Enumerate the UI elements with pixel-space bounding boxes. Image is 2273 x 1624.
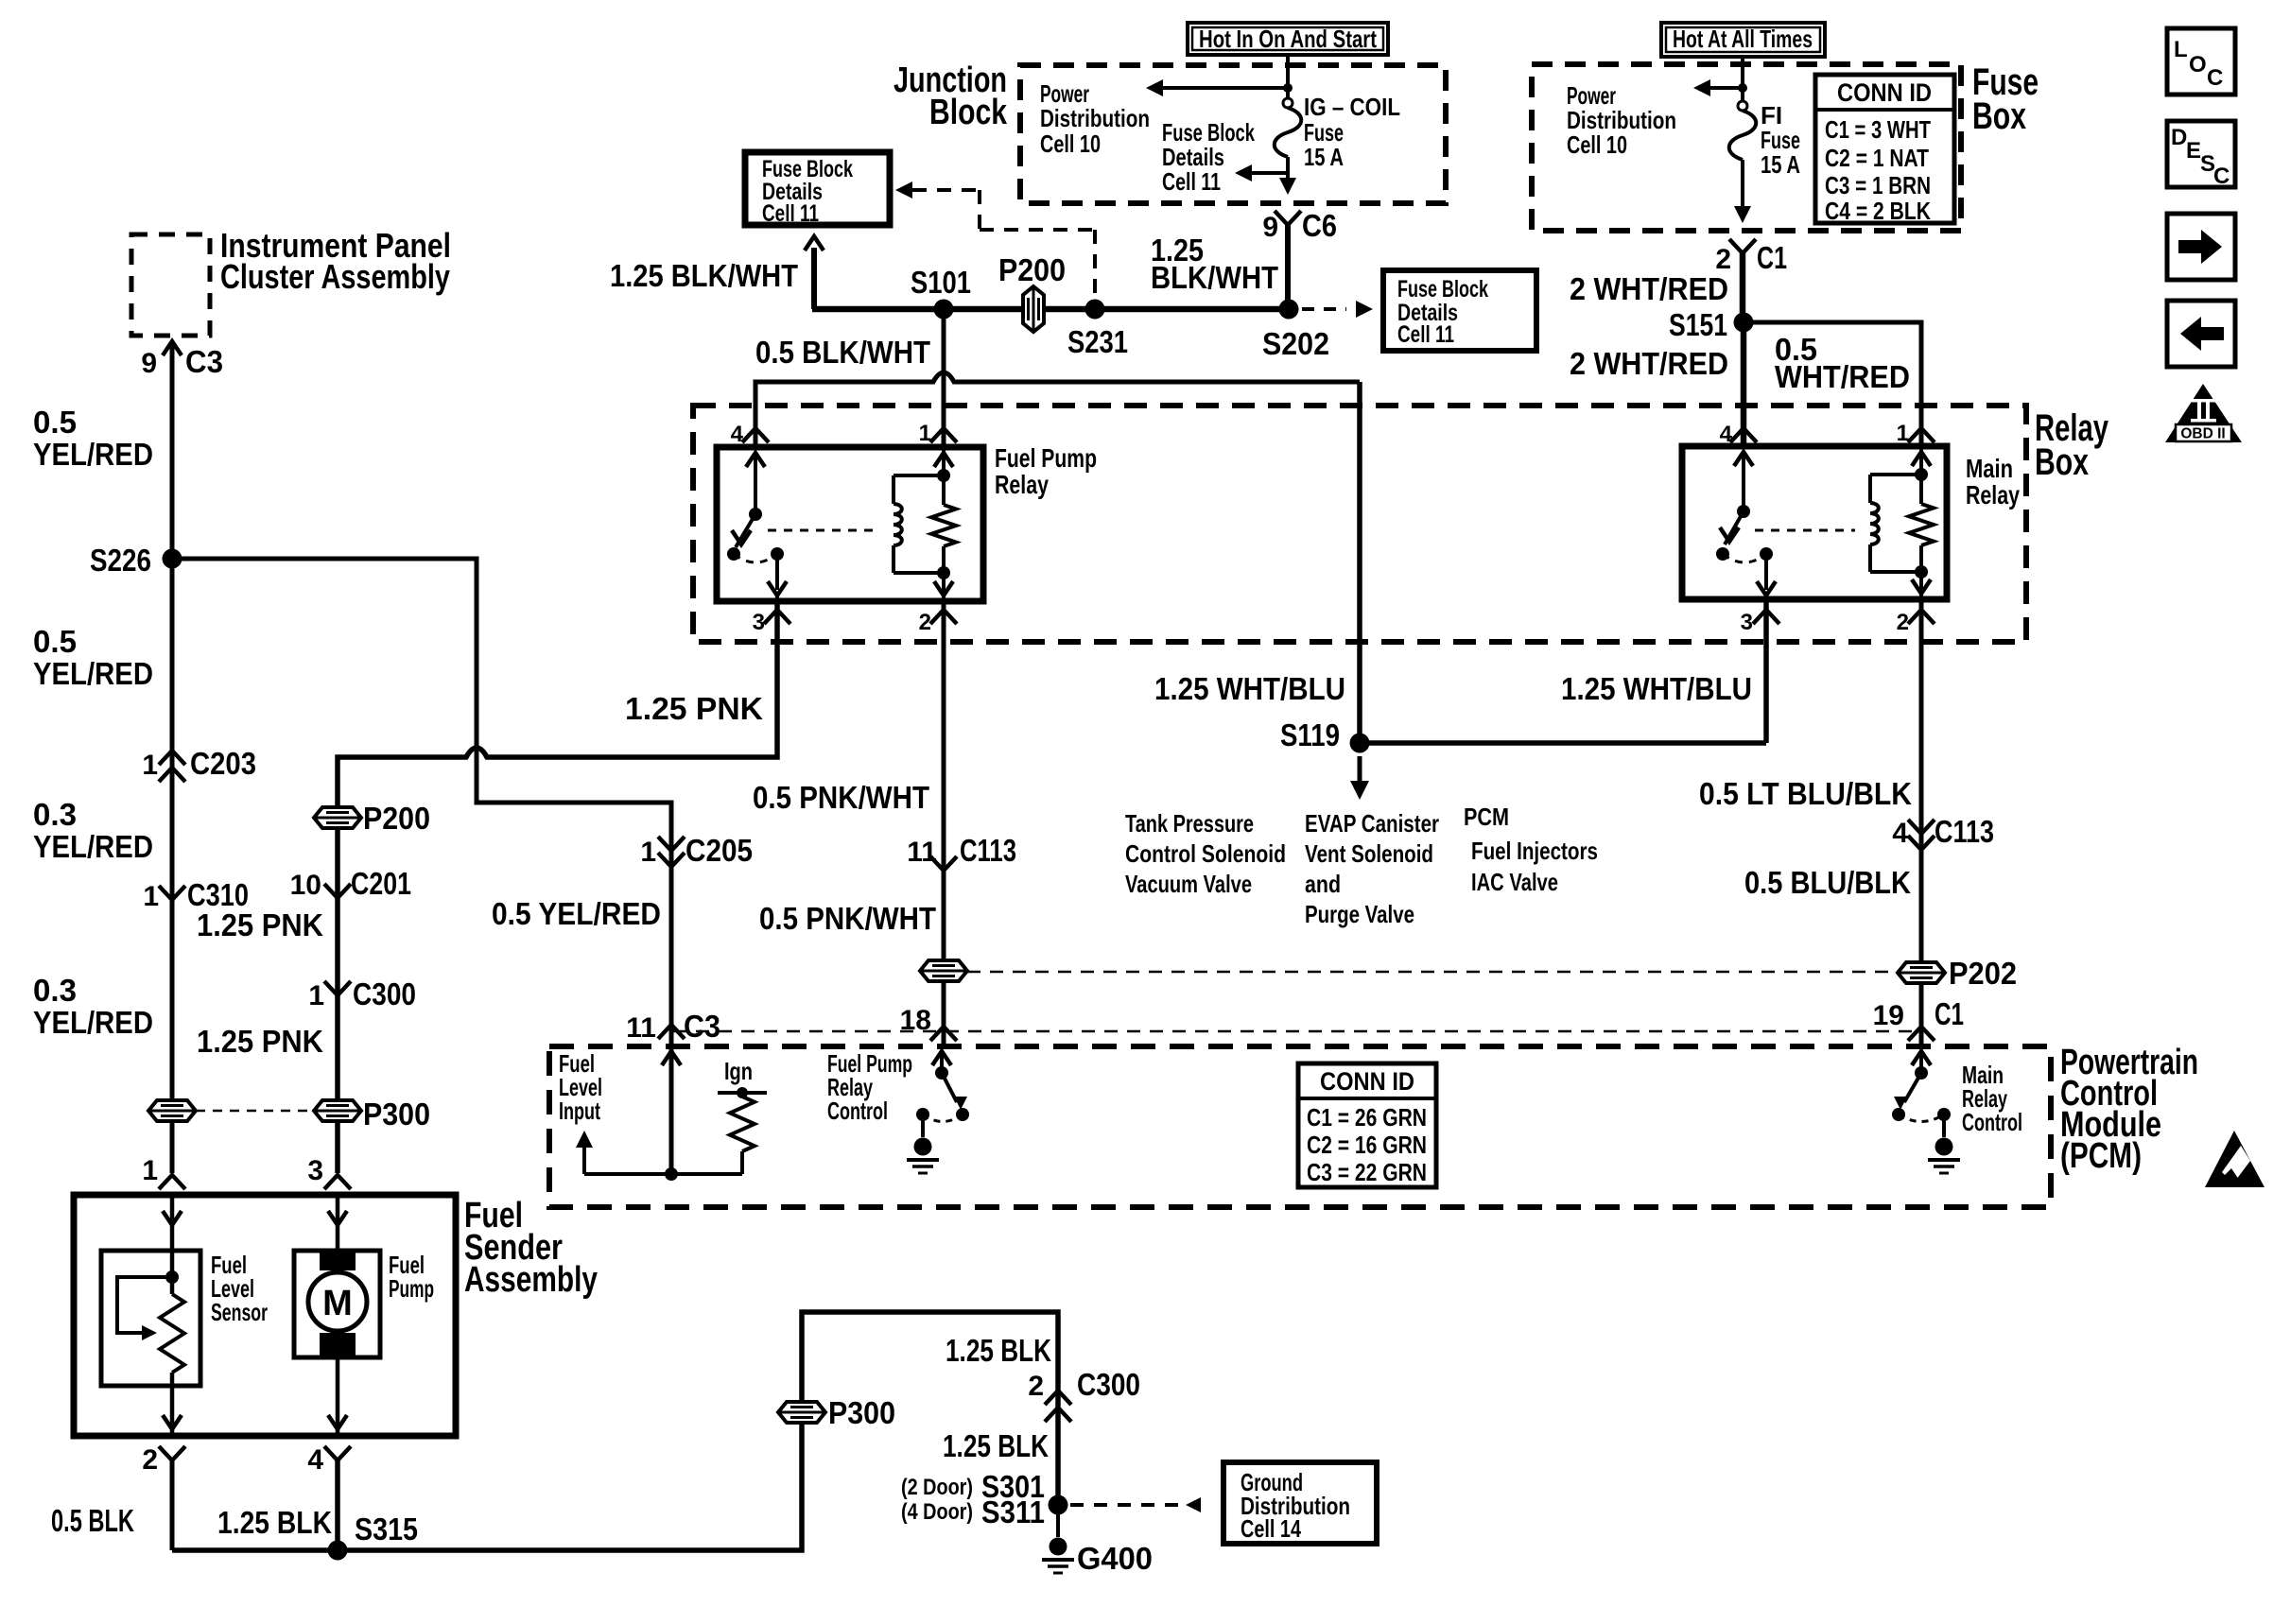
- svg-text:18: 18: [900, 1005, 931, 1036]
- main relay box: [1682, 446, 1947, 599]
- wire sensor to pin 2: [170, 1373, 175, 1436]
- wire from Hot In On And Start into junction block: [1286, 55, 1290, 103]
- connector C310 pin 1: [159, 886, 185, 900]
- svg-text:G400: G400: [1077, 1541, 1153, 1576]
- Relay Box dashed box: [693, 406, 2026, 642]
- svg-text:Control: Control: [827, 1097, 888, 1125]
- svg-text:C: C: [2213, 164, 2230, 189]
- svg-text:Box: Box: [1972, 95, 2026, 137]
- svg-text:1.25 BLK/WHT: 1.25 BLK/WHT: [610, 258, 798, 293]
- svg-text:0.5 BLK/WHT: 0.5 BLK/WHT: [755, 335, 930, 370]
- svg-text:C113: C113: [960, 833, 1016, 868]
- wire main relay pin 2 down to PCM pin 19 C1: [1919, 599, 1924, 1044]
- svg-text:Main: Main: [1966, 454, 2013, 483]
- svg-text:Input: Input: [559, 1097, 600, 1125]
- wire motor to pin 4: [336, 1357, 340, 1436]
- svg-text:15 A: 15 A: [1304, 143, 1344, 171]
- svg-text:Cell 11: Cell 11: [762, 200, 819, 227]
- svg-text:C3 = 1 BRN: C3 = 1 BRN: [1825, 171, 1931, 199]
- fuel pump relay control switch: [932, 1051, 951, 1065]
- svg-text:4: 4: [731, 422, 744, 447]
- connector C300 pin 1: [324, 981, 351, 995]
- junction dot at IG-COIL fuse top: [1283, 83, 1293, 93]
- svg-text:C2 = 16 GRN: C2 = 16 GRN: [1307, 1131, 1427, 1159]
- svg-text:C3: C3: [684, 1009, 720, 1044]
- svg-text:1: 1: [142, 1155, 158, 1186]
- svg-text:1: 1: [1897, 421, 1909, 446]
- main relay pin 2 connector: [1908, 610, 1935, 624]
- svg-text:S119: S119: [1280, 717, 1340, 752]
- svg-text:0.5 LT BLU/BLK: 0.5 LT BLU/BLK: [1699, 776, 1912, 811]
- svg-text:Ign: Ign: [724, 1057, 753, 1085]
- main relay pin 1 connector: [1908, 428, 1935, 442]
- Fuse Block Details Cell 11 box (right of S202): [1383, 270, 1536, 351]
- svg-text:1: 1: [919, 421, 931, 446]
- svg-text:Fuel Pump: Fuel Pump: [995, 443, 1097, 473]
- main relay coil link dashed: [1755, 529, 1855, 532]
- svg-text:Cell 14: Cell 14: [1241, 1514, 1301, 1543]
- fuel pump relay coil link dashed: [768, 529, 877, 532]
- svg-text:0.5 BLK: 0.5 BLK: [51, 1503, 134, 1538]
- wire 9 C6 down to S202: [1285, 225, 1291, 309]
- PCM connector interface thin dashed line: [673, 1030, 1916, 1033]
- svg-text:10: 10: [290, 870, 321, 901]
- thin dashed link grommet to P202: [967, 971, 1898, 974]
- wire fuel level input horizontal: [584, 1172, 742, 1176]
- svg-text:Sensor: Sensor: [211, 1298, 268, 1326]
- svg-text:Relay: Relay: [1966, 480, 2020, 510]
- svg-text:1.25 BLK: 1.25 BLK: [217, 1505, 332, 1540]
- svg-text:and: and: [1305, 870, 1341, 898]
- main relay pin1-pin2 internal wire: [1919, 446, 1923, 504]
- svg-text:1.25 PNK: 1.25 PNK: [197, 907, 323, 942]
- svg-text:1.25 PNK: 1.25 PNK: [197, 1024, 323, 1059]
- wire S151 down to main relay pin 4: [1741, 322, 1747, 445]
- svg-text:S226: S226: [90, 543, 151, 578]
- svg-text:C300: C300: [1077, 1367, 1140, 1402]
- wire C1 pin 2 down to S151: [1740, 253, 1746, 322]
- svg-text:(PCM): (PCM): [2060, 1136, 2142, 1176]
- svg-text:Control: Control: [1962, 1108, 2022, 1136]
- svg-text:C1 = 26 GRN: C1 = 26 GRN: [1307, 1103, 1427, 1132]
- svg-text:C3 = 22 GRN: C3 = 22 GRN: [1307, 1158, 1427, 1186]
- fuel level sensor wiper: [117, 1277, 172, 1333]
- fuel pump relay pin 2 connector: [930, 610, 957, 624]
- svg-text:P200: P200: [363, 801, 430, 836]
- connector P200 on bus: [1023, 286, 1044, 332]
- svg-text:WHT/RED: WHT/RED: [1775, 359, 1910, 394]
- svg-text:IG – COIL: IG – COIL: [1304, 93, 1400, 121]
- svg-text:P300: P300: [828, 1395, 895, 1430]
- dashed arrow to Ground Distribution box: [1070, 1503, 1184, 1507]
- connector P300 (YEL/RED wire): [148, 1100, 196, 1121]
- connector C1 pin 19 (PCM): [1908, 1027, 1935, 1041]
- svg-text:3: 3: [1741, 610, 1753, 635]
- svg-text:0.5 PNK/WHT: 0.5 PNK/WHT: [759, 901, 936, 936]
- svg-text:Control Solenoid: Control Solenoid: [1125, 839, 1286, 868]
- Fuse Block Details Cell 11 box (top left): [745, 152, 890, 225]
- svg-text:Vacuum Valve: Vacuum Valve: [1125, 870, 1252, 898]
- svg-text:L: L: [2174, 37, 2188, 62]
- wire S226 down through C203 C310 to fuel sender pin 1: [170, 559, 175, 1173]
- OBD II symbol: [2165, 384, 2242, 442]
- fuel pump relay box: [717, 447, 983, 601]
- svg-text:S202: S202: [1262, 326, 1329, 361]
- wire from FI fuse to fuse box exit arrow: [1741, 160, 1744, 208]
- junction dot at FI fuse top: [1738, 83, 1747, 93]
- connector P202: [1898, 962, 1945, 983]
- svg-text:0.5 YEL/RED: 0.5 YEL/RED: [492, 896, 661, 931]
- svg-text:YEL/RED: YEL/RED: [33, 829, 153, 864]
- svg-text:S151: S151: [1669, 307, 1727, 342]
- wire fuel pump relay pin 2 down to PCM pin 18: [942, 601, 946, 1044]
- svg-text:2 WHT/RED: 2 WHT/RED: [1570, 271, 1728, 306]
- svg-text:2: 2: [1028, 1371, 1044, 1402]
- svg-text:1: 1: [142, 750, 158, 781]
- fuel sender pin 2 connector: [159, 1446, 185, 1460]
- wire C3 pin 11 into PCM: [662, 1051, 681, 1065]
- svg-text:3: 3: [753, 610, 765, 635]
- svg-text:P300: P300: [363, 1097, 430, 1132]
- connector C300 pin 2: [1045, 1391, 1071, 1405]
- svg-text:C1: C1: [1935, 996, 1964, 1031]
- fuel pump motor: [320, 1252, 356, 1270]
- svg-text:YEL/RED: YEL/RED: [33, 656, 153, 691]
- connector C1 pin 2 (fuse box): [1729, 239, 1756, 253]
- wire S119 right to main relay pin 3: [1360, 740, 1766, 746]
- fuel pump relay switch dashed throw: [734, 554, 777, 562]
- svg-text:0.5: 0.5: [33, 405, 77, 440]
- fuel pump relay pin 1 connector: [930, 428, 957, 442]
- svg-text:C201: C201: [351, 866, 411, 901]
- svg-text:IAC Valve: IAC Valve: [1471, 868, 1558, 896]
- main relay switch output to pin 3: [1764, 554, 1768, 590]
- Hot At All Times box: [1661, 23, 1825, 57]
- connector C113 pin 11: [930, 856, 957, 871]
- svg-text:C2 = 1 NAT: C2 = 1 NAT: [1825, 144, 1929, 172]
- fuel pump relay pin 3 connector: [764, 610, 790, 624]
- svg-text:C1 = 3 WHT: C1 = 3 WHT: [1825, 115, 1931, 144]
- power distribution arrow (junction block): [1161, 86, 1288, 90]
- svg-text:D: D: [2171, 125, 2187, 150]
- Fuse Box dashed box: [1532, 64, 1961, 231]
- main relay coil resistor: [1909, 504, 1934, 545]
- svg-text:C310: C310: [187, 877, 249, 912]
- svg-text:S101: S101: [911, 265, 971, 300]
- svg-text:Hot At All Times: Hot At All Times: [1673, 25, 1813, 53]
- svg-text:Relay: Relay: [995, 470, 1049, 499]
- svg-text:C203: C203: [190, 746, 256, 781]
- Powertrain Control Module dashed box: [549, 1046, 2051, 1207]
- svg-text:(2 Door): (2 Door): [901, 1475, 973, 1500]
- Ground Distribution Cell 14 box: [1223, 1462, 1377, 1544]
- dashed arrow from S202 to Fuse Block Details box: [1302, 307, 1346, 311]
- fuel level sensor resistor: [160, 1294, 184, 1373]
- fuel level sensor box: [101, 1251, 200, 1386]
- svg-text:PCM: PCM: [1464, 803, 1509, 831]
- fuse IG-COIL 15A: [1283, 98, 1293, 108]
- svg-text:C6: C6: [1302, 208, 1337, 243]
- svg-text:C113: C113: [1935, 814, 1994, 849]
- svg-text:Tank Pressure: Tank Pressure: [1125, 809, 1254, 838]
- svg-text:9: 9: [141, 348, 157, 379]
- svg-text:4: 4: [307, 1444, 323, 1476]
- wire YEL/RED arrow up to instrument cluster: [163, 341, 182, 355]
- svg-text:Cell 10: Cell 10: [1567, 130, 1627, 159]
- power distribution arrow (fuse box): [1709, 86, 1743, 90]
- main relay coil: [1870, 473, 1921, 476]
- svg-text:CONN ID: CONN ID: [1837, 78, 1932, 107]
- wire from fuse to junction block exit arrow: [1286, 157, 1290, 180]
- svg-text:2: 2: [919, 610, 931, 635]
- connector pin 18 (PCM): [930, 1027, 957, 1041]
- connector P200 (PNK wire): [314, 807, 361, 828]
- svg-text:19: 19: [1873, 1000, 1904, 1031]
- svg-text:4: 4: [1892, 818, 1908, 849]
- main relay control ground: [1942, 1114, 1946, 1137]
- main relay switch dashed throw: [1723, 554, 1766, 562]
- wire 1.25 BLK/WHT arrow up to Fuse Block Details: [811, 248, 817, 309]
- node S119: [1350, 734, 1370, 753]
- svg-text:Purge Valve: Purge Valve: [1305, 900, 1414, 928]
- fuel sender pin 3 connector: [324, 1175, 351, 1189]
- fuel pump relay coil: [894, 474, 944, 477]
- svg-text:2 WHT/RED: 2 WHT/RED: [1570, 346, 1728, 381]
- svg-text:YEL/RED: YEL/RED: [33, 1005, 153, 1040]
- wire pin 4 down to S315: [335, 1460, 340, 1550]
- ground G400: [1056, 1505, 1060, 1537]
- svg-text:EVAP Canister: EVAP Canister: [1305, 809, 1439, 838]
- svg-text:Block: Block: [929, 93, 1008, 132]
- svg-text:Fuse Block: Fuse Block: [1397, 276, 1488, 302]
- svg-text:0.3: 0.3: [33, 797, 77, 832]
- grommet on PNK/WHT wire: [920, 960, 967, 981]
- connector P300 (PNK wire): [314, 1100, 361, 1121]
- node S151: [1734, 313, 1754, 333]
- fuel sender assembly box: [74, 1195, 456, 1436]
- svg-text:E: E: [2186, 138, 2201, 164]
- node S315: [328, 1541, 348, 1561]
- svg-text:P202: P202: [1949, 956, 2017, 991]
- connector C3 pin 11 (PCM): [658, 1025, 685, 1039]
- svg-text:0.5: 0.5: [33, 624, 77, 659]
- arrow S119 down to solenoid loads: [1358, 756, 1362, 781]
- DESC legend box: [2167, 121, 2235, 187]
- svg-text:2: 2: [142, 1444, 158, 1476]
- svg-text:(4 Door): (4 Door): [901, 1499, 973, 1525]
- node S202: [1279, 300, 1299, 320]
- wire down to S119: [1357, 382, 1362, 743]
- fuel pump relay control ground: [921, 1114, 925, 1137]
- node S101: [934, 300, 954, 320]
- fuel pump relay coil resistor: [931, 505, 956, 546]
- svg-text:Box: Box: [2035, 441, 2089, 483]
- main relay pin 3 connector: [1753, 610, 1779, 624]
- wire fuel pump relay pin 4 up and right to S119 drop (hump over S101 wire): [755, 372, 1360, 445]
- svg-text:YEL/RED: YEL/RED: [33, 437, 153, 472]
- svg-text:O: O: [2189, 52, 2207, 78]
- CONN ID table (PCM): [1298, 1063, 1436, 1187]
- node S301/S311: [1049, 1495, 1068, 1515]
- svg-text:1.25 WHT/BLU: 1.25 WHT/BLU: [1154, 671, 1345, 706]
- left arrow legend box: [2167, 301, 2235, 367]
- svg-text:C300: C300: [353, 976, 416, 1011]
- svg-text:9: 9: [1262, 212, 1278, 243]
- svg-text:C4 = 2 BLK: C4 = 2 BLK: [1825, 197, 1931, 225]
- svg-text:Vent Solenoid: Vent Solenoid: [1305, 839, 1433, 868]
- svg-text:15 A: 15 A: [1761, 150, 1800, 179]
- svg-text:S311: S311: [981, 1494, 1045, 1529]
- svg-text:Pump: Pump: [389, 1274, 434, 1303]
- dashed link between P300 halves: [196, 1110, 312, 1113]
- svg-text:M: M: [322, 1284, 353, 1323]
- connector C205 pin 1: [658, 837, 685, 851]
- node S231: [1085, 300, 1105, 320]
- svg-text:Hot In On And Start: Hot In On And Start: [1199, 25, 1377, 53]
- Hot In On And Start box: [1188, 23, 1388, 55]
- LOC legend box: [2167, 28, 2235, 95]
- svg-text:1.25 PNK: 1.25 PNK: [625, 691, 763, 726]
- wire S151 right and down to main relay pin 1: [1744, 322, 1921, 445]
- fuse FI 15A: [1738, 101, 1747, 111]
- svg-text:C: C: [2207, 65, 2223, 91]
- svg-text:Distribution: Distribution: [1040, 104, 1150, 132]
- svg-text:S315: S315: [355, 1512, 418, 1546]
- svg-text:1.25 WHT/BLU: 1.25 WHT/BLU: [1561, 671, 1752, 706]
- wire fuel pump relay pin 3 down/left (1.25 PNK) with hump over YEL/RED: [338, 601, 777, 1173]
- svg-text:C1: C1: [1757, 240, 1787, 275]
- fuel pump box: [294, 1251, 380, 1357]
- svg-text:S231: S231: [1067, 324, 1128, 359]
- fuel level input arrow: [582, 1144, 586, 1174]
- fuel sender pin 4 connector: [324, 1446, 351, 1460]
- main relay pin 4 connector: [1730, 428, 1757, 442]
- svg-text:P200: P200: [998, 252, 1066, 287]
- main relay switch arm: [1734, 452, 1753, 466]
- svg-text:1: 1: [143, 881, 159, 912]
- svg-text:1.25 BLK: 1.25 BLK: [943, 1428, 1049, 1463]
- svg-text:Cluster Assembly: Cluster Assembly: [220, 257, 450, 296]
- svg-text:Fuel Injectors: Fuel Injectors: [1471, 837, 1598, 865]
- fuel sender pin 1 connector: [159, 1175, 185, 1189]
- wire pin 3 down to motor: [336, 1195, 340, 1252]
- wire from Hot At All Times into fuse box: [1741, 57, 1744, 106]
- connector C201 pin 10: [324, 884, 351, 898]
- svg-text:0.5 BLU/BLK: 0.5 BLU/BLK: [1744, 865, 1911, 900]
- node S226: [163, 549, 182, 569]
- ground bus horizontal to P300 riser: [172, 1312, 1058, 1550]
- fuel pump relay switch arm: [746, 453, 765, 467]
- PCM internal junction dot: [665, 1167, 678, 1181]
- connector P300 (ground riser): [778, 1402, 825, 1423]
- wire main horizontal bus S101-S231-S202: [812, 306, 1289, 313]
- svg-text:1: 1: [308, 980, 324, 1011]
- wire S226 right and down to C205 (crossed by PNK hump): [172, 559, 671, 1173]
- CONN ID table (fuse box): [1815, 75, 1954, 223]
- fuse block details arrow (junction block): [1248, 171, 1288, 175]
- svg-text:C205: C205: [685, 833, 753, 868]
- svg-text:Cell 10: Cell 10: [1040, 130, 1101, 158]
- svg-text:0.3: 0.3: [33, 973, 77, 1008]
- fuel pump relay switch output to pin 3: [775, 554, 779, 590]
- svg-text:BLK/WHT: BLK/WHT: [1151, 260, 1278, 295]
- right arrow legend box: [2167, 214, 2235, 280]
- svg-text:CONN ID: CONN ID: [1320, 1067, 1414, 1096]
- Instrument Panel Cluster Assembly dashed box: [131, 234, 210, 336]
- svg-text:Assembly: Assembly: [464, 1260, 598, 1300]
- connector C203 pin 1: [159, 751, 185, 765]
- ESD warning symbol: [2205, 1131, 2264, 1187]
- svg-text:1: 1: [640, 837, 656, 868]
- wire S101 down to fuel pump relay pin 1: [942, 309, 946, 445]
- dashed arrow from S231 to Fuse Block Details box: [895, 181, 912, 199]
- svg-text:C3: C3: [185, 344, 223, 379]
- svg-text:0.5 PNK/WHT: 0.5 PNK/WHT: [753, 780, 929, 815]
- svg-text:Cell 11: Cell 11: [1397, 321, 1454, 348]
- svg-text:Cell 11: Cell 11: [1162, 167, 1221, 196]
- connector C6 pin 9: [1275, 211, 1301, 225]
- svg-text:11: 11: [907, 837, 937, 868]
- svg-text:OBD II: OBD II: [2180, 426, 2225, 442]
- wire pin 2 down to ground bus (0.5 BLK): [170, 1460, 175, 1550]
- connector C113 pin 4: [1908, 820, 1935, 834]
- wire pin 1 down through sensor: [170, 1195, 175, 1294]
- fuel pump relay pin1-pin2 internal wire: [942, 447, 946, 505]
- svg-text:3: 3: [307, 1155, 323, 1186]
- svg-text:4: 4: [1720, 422, 1733, 447]
- main relay control switch: [1912, 1051, 1931, 1065]
- svg-text:1.25 BLK: 1.25 BLK: [946, 1333, 1051, 1368]
- svg-text:2: 2: [1897, 610, 1909, 635]
- fuel pump relay pin 4 connector: [742, 428, 769, 442]
- Junction Block dashed box: [1020, 65, 1446, 203]
- svg-text:11: 11: [626, 1012, 656, 1044]
